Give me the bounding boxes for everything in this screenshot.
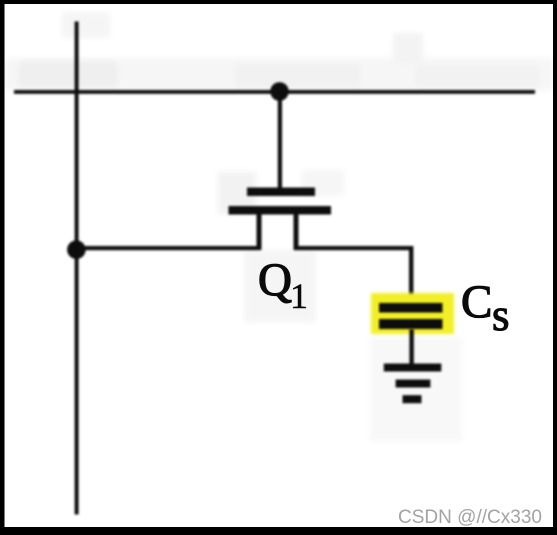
- wire: drain across to capacitor branch: [294, 246, 413, 250]
- transistor Q1: [229, 188, 332, 251]
- node: junction on data line: [67, 240, 86, 259]
- wire: source to data line: [76, 246, 260, 250]
- svg-text:Q: Q: [258, 254, 292, 306]
- svg-text:CSDN @//Cx330: CSDN @//Cx330: [398, 506, 542, 528]
- watermark: [398, 506, 542, 528]
- ground: [384, 364, 442, 404]
- faint jpeg-artifact shading (decorative): [4, 12, 553, 442]
- node: junction of gate line and gate lead: [270, 82, 289, 101]
- wire: down to capacitor: [409, 246, 413, 304]
- svg-text:s: s: [492, 290, 510, 340]
- wire: vertical data line: [75, 22, 79, 515]
- wire: gate lead down to transistor: [278, 92, 282, 188]
- svg-text:1: 1: [290, 276, 308, 316]
- label Cs: [461, 276, 510, 340]
- wire: capacitor to ground: [409, 329, 413, 365]
- capacitor Cs (highlighted): [371, 293, 454, 334]
- label Q1: [258, 254, 308, 316]
- wire: horizontal gate (word) line: [14, 90, 535, 94]
- svg-text:C: C: [461, 276, 492, 328]
